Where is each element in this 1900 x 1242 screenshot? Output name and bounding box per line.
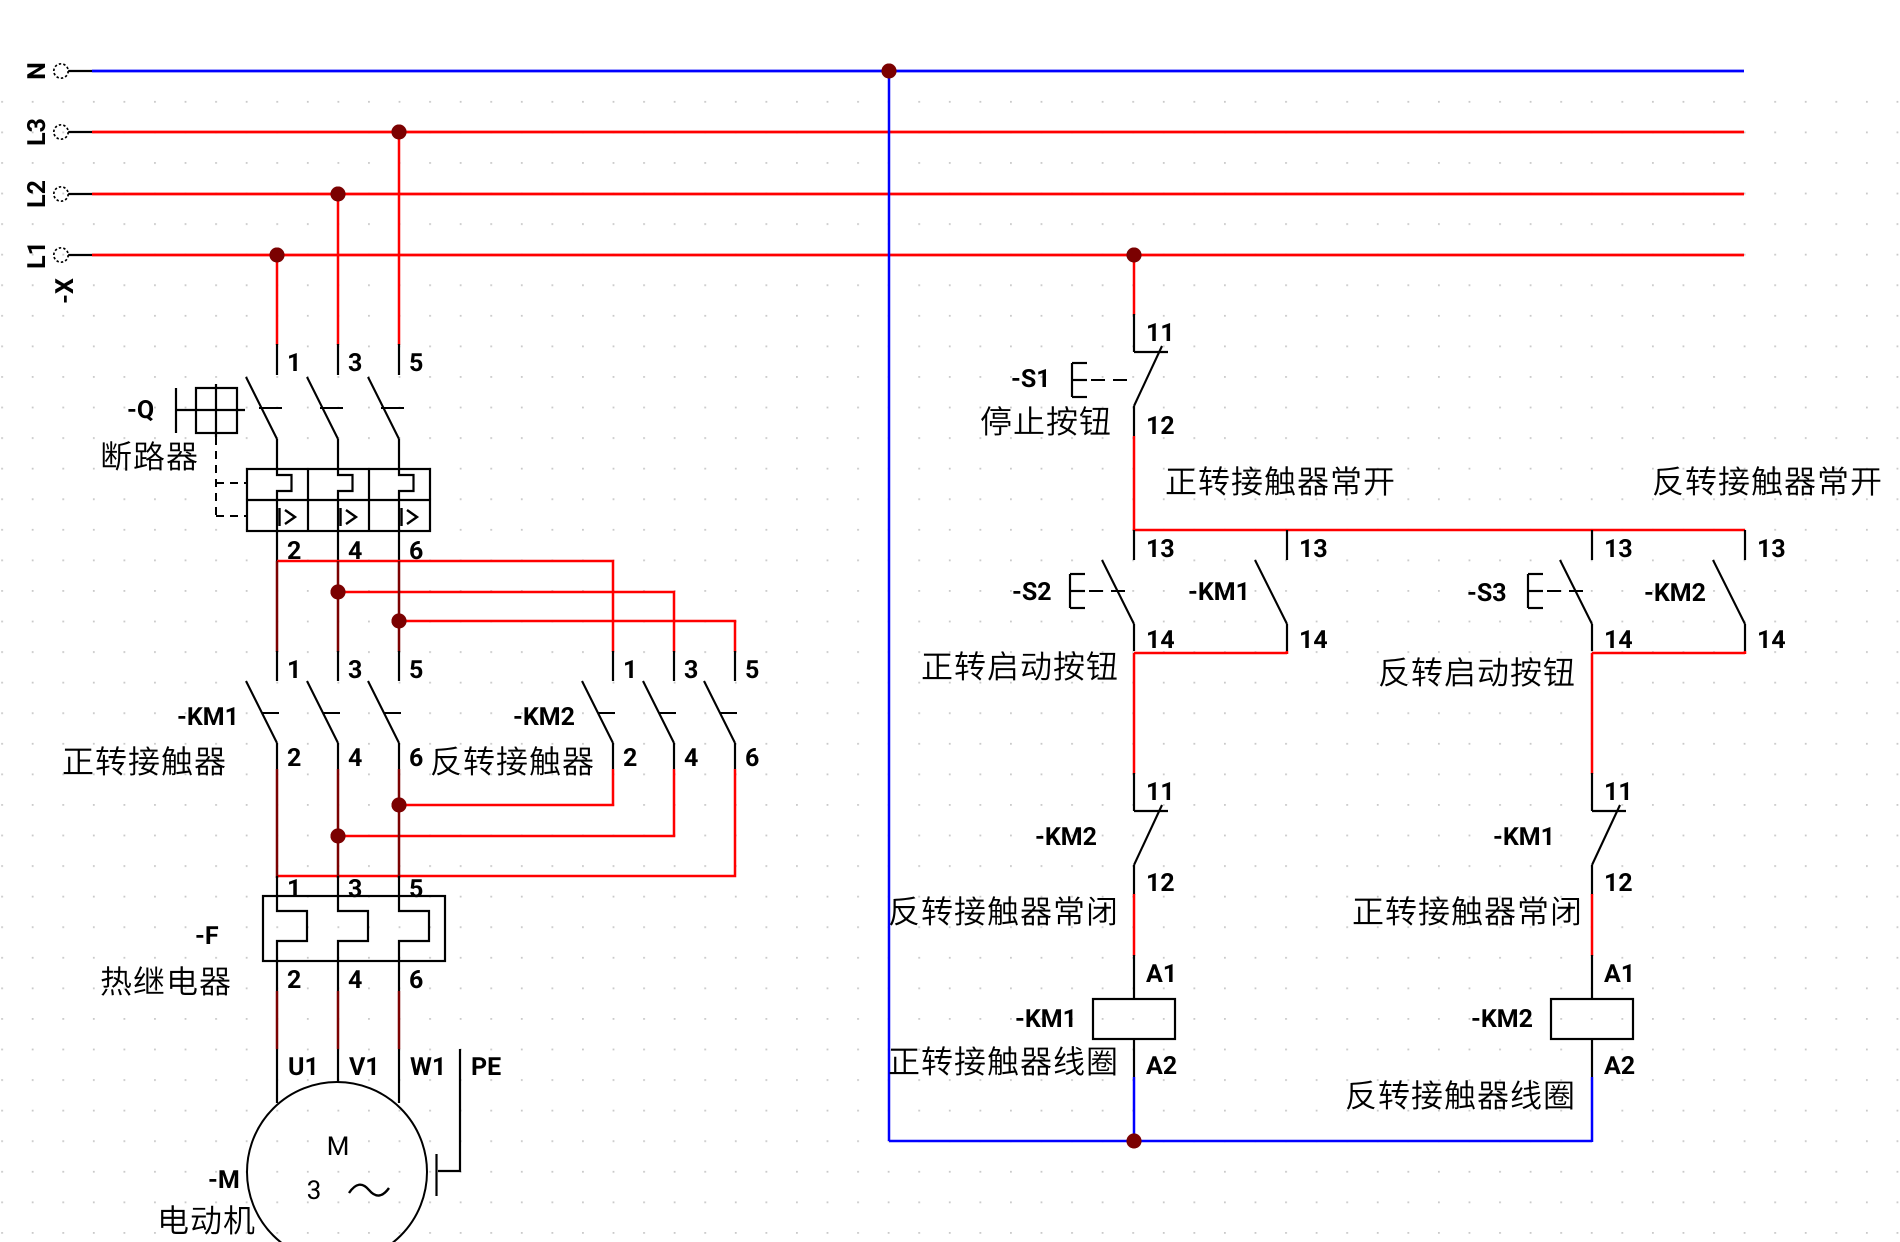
- junction L1 / control circuit: [1127, 248, 1142, 263]
- junction breaker6 node: [392, 614, 407, 629]
- junction L2 / breaker pole 3: [331, 187, 346, 202]
- wire breaker4 to KM1 pole3: [337, 561, 340, 652]
- label -KM2 (coil): [1472, 1009, 1532, 1027]
- label -KM1 (interlock): [1494, 827, 1550, 845]
- label 反转接触器常闭 (KM2 NC interlock): [890, 897, 918, 926]
- -S2 pin 14: [1148, 630, 1174, 648]
- wire breaker4 to KM2 pole3: [338, 592, 674, 652]
- label -F: [196, 926, 218, 944]
- motor terminal labels: [289, 1057, 500, 1075]
- breaker -Q terminal labels 2 4 6: [288, 541, 423, 559]
- label 热继电器 (thermal relay): [101, 966, 131, 995]
- KM1 terminal labels 2 4 6: [288, 748, 423, 766]
- contactor -KM2 main contacts: [582, 651, 737, 769]
- wire -S3 to -KM2 aux (14): [1592, 652, 1745, 655]
- breaker magnetic trip I> symbols: [280, 508, 418, 526]
- circuit breaker -Q poles: [246, 344, 414, 561]
- label L3: [27, 119, 45, 144]
- -KM2 aux NO pin 13: [1759, 539, 1784, 557]
- terminal L1 (strip -X): [54, 248, 92, 262]
- interlock contact -KM1 (NC): [1592, 773, 1626, 895]
- bus L3: [92, 131, 1744, 134]
- contact -KM2 aux NO: [1713, 530, 1745, 651]
- label 正转接触器常开 (KM1 NO aux): [1167, 469, 1196, 494]
- label -M: [209, 1170, 238, 1188]
- coil -KM2 terminal A1: [1592, 955, 1631, 999]
- stop button -S1 (NC): [1134, 314, 1168, 436]
- wire KM2-4 to phase node: [338, 769, 674, 836]
- KM2 terminal labels 1 3 5: [625, 660, 758, 678]
- junction L1 / breaker pole 1: [270, 248, 285, 263]
- label 正转接触器 (forward contactor): [64, 749, 93, 774]
- wire -F6 to motor W1: [398, 991, 401, 1103]
- control rail 13: [1134, 529, 1745, 532]
- wire N down (neutral rail): [888, 71, 891, 1141]
- wire -S2 to -KM1 aux (14): [1134, 652, 1287, 655]
- label -KM1 (main): [178, 707, 234, 725]
- wire KM1-6 down to -F: [398, 769, 401, 878]
- breaker -Q terminal labels 1 3 5: [289, 353, 422, 371]
- -KM2 aux NO pin 14: [1759, 630, 1785, 648]
- wire breaker2 to KM2 pole1: [277, 561, 613, 652]
- wire KM1-2 down to -F: [276, 769, 279, 878]
- label N: [27, 64, 45, 78]
- label 电动机 (motor): [161, 1205, 188, 1234]
- label 正转接触器常闭 (KM1 NC interlock): [1354, 899, 1383, 924]
- wire -KM2 to coil -KM1: [1133, 894, 1136, 956]
- bus L2: [92, 193, 1744, 196]
- -S1 pin 11: [1148, 323, 1170, 341]
- label 停止按钮 (stop button): [981, 406, 1010, 435]
- KM1 terminal labels 1 3 5: [289, 660, 422, 678]
- terminal N (strip -X): [54, 64, 92, 78]
- -KM1 aux NO pin 13: [1301, 539, 1326, 557]
- motor label M: [329, 1137, 347, 1155]
- junction L3 / breaker pole 5: [392, 125, 407, 140]
- wire breaker6 to KM2 pole5: [399, 621, 735, 652]
- contact -S2: [1102, 530, 1134, 651]
- label -S3: [1468, 583, 1505, 601]
- breaker -Q manual actuator: [176, 384, 245, 437]
- -KM1 pin 12: [1606, 873, 1632, 891]
- label 正转启动按钮 (fwd start button): [923, 654, 952, 679]
- wire KM2-aux down: [1744, 651, 1747, 654]
- interlock contact -KM2 (NC): [1134, 773, 1168, 895]
- wire coil -KM2 to N rail: [1591, 1077, 1594, 1142]
- motor -M circle: [247, 1082, 427, 1242]
- label -Q: [128, 400, 153, 421]
- wire L1 to breaker pole 1: [276, 255, 279, 345]
- -S1 pin 12: [1148, 416, 1174, 434]
- wire -S1 to rail: [1133, 436, 1136, 531]
- label L2: [27, 181, 45, 206]
- label 正转接触器线圈 (KM1 coil): [890, 1049, 919, 1074]
- coil -KM1 terminal A2: [1134, 1039, 1176, 1077]
- label -KM2 (aux NO): [1645, 583, 1705, 601]
- -S1 actuator: [1072, 363, 1129, 397]
- wire -F4 to motor V1: [337, 991, 340, 1083]
- coil -KM2 terminal A2: [1592, 1039, 1634, 1077]
- wire L2 to breaker pole 3: [337, 194, 340, 345]
- coil -KM1 terminal A1: [1134, 955, 1173, 999]
- label -KM1 (coil): [1016, 1009, 1072, 1027]
- label -X (terminal strip): [55, 278, 73, 302]
- motor label 3: [308, 1180, 320, 1199]
- wire KM2-6 to phase node: [277, 769, 735, 876]
- -KM1 aux NO pin 14: [1301, 630, 1327, 648]
- label 反转启动按钮 (rev start button): [1380, 658, 1408, 687]
- wire KM2-2 to phase node: [399, 769, 613, 805]
- junction breaker4 node: [331, 585, 346, 600]
- junction dots overlay: [270, 64, 1142, 1149]
- KM2 terminal labels 2 4 6: [624, 748, 759, 766]
- -KM2 pin 12: [1148, 873, 1174, 891]
- breaker -Q linkage (dashed): [216, 408, 404, 516]
- wire breaker2 to KM1 pole1: [276, 561, 279, 652]
- bus L1: [92, 254, 1744, 257]
- coil -KM1: [1093, 999, 1175, 1039]
- label L1: [27, 246, 45, 268]
- neutral return rail: [889, 1140, 1592, 1143]
- wire -F2 to motor U1: [276, 991, 279, 1103]
- thermal relay -F box: [263, 896, 445, 961]
- wire breaker6 to KM1 pole5: [398, 561, 401, 652]
- junction N / control circuit: [882, 64, 897, 79]
- motor tilde ~: [349, 1185, 389, 1196]
- label -KM2 (interlock): [1036, 827, 1096, 845]
- -S2 pin 13: [1148, 539, 1173, 557]
- terminal L2 (strip -X): [54, 187, 92, 201]
- label 反转接触器常开 (KM2 NO aux): [1654, 467, 1682, 496]
- label -S1: [1012, 369, 1046, 387]
- wire KM1-4 down to -F: [337, 769, 340, 878]
- -KM1 pin 11: [1606, 782, 1628, 800]
- wire KM1-aux down: [1286, 651, 1289, 654]
- label -S2: [1013, 582, 1050, 600]
- bus N: [92, 70, 1744, 73]
- label 断路器 (circuit breaker): [103, 441, 131, 471]
- label -KM2 (main): [514, 707, 574, 725]
- thermal relay -F poles: [277, 876, 429, 991]
- label 反转接触器 (reverse contactor): [432, 747, 460, 776]
- wire coil -KM1 to N rail: [1133, 1077, 1136, 1142]
- -S3 actuator: [1528, 574, 1585, 608]
- terminal L3 (strip -X): [54, 125, 92, 139]
- wire L1 to stop button -S1: [1133, 255, 1136, 315]
- wire L3 to breaker pole 5: [398, 132, 401, 345]
- label -KM1 (aux NO): [1189, 582, 1245, 600]
- wire down to -KM1 NC: [1591, 653, 1594, 774]
- -S2 actuator: [1070, 574, 1127, 608]
- wire -KM1 to coil -KM2: [1591, 894, 1594, 956]
- wire PE to motor frame: [437, 1049, 461, 1196]
- junction phase V node: [331, 829, 346, 844]
- coil -KM2: [1551, 999, 1633, 1039]
- -KM2 pin 11: [1148, 782, 1170, 800]
- junction coil KM1 / neutral rail: [1127, 1134, 1142, 1149]
- contact -KM1 aux NO: [1255, 530, 1287, 651]
- junction phase W node: [392, 798, 407, 813]
- label 反转接触器线圈 (KM2 coil): [1347, 1081, 1375, 1110]
- -F terminal labels 1 3 5: [289, 879, 422, 897]
- -S3 pin 14: [1606, 630, 1632, 648]
- contactor -KM1 main contacts: [246, 651, 401, 769]
- wire down to -KM2 NC: [1133, 653, 1136, 774]
- -F terminal labels 2 4 6: [288, 970, 423, 988]
- breaker -Q box: [247, 469, 430, 531]
- contact -S3: [1560, 530, 1592, 651]
- -S3 pin 13: [1606, 539, 1631, 557]
